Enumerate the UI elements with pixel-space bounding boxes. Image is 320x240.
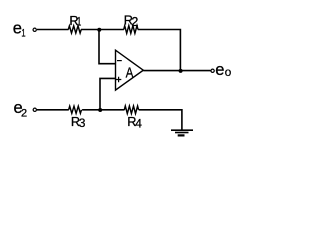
svg-text:1: 1 [77,15,82,29]
svg-text:e: e [215,61,224,79]
svg-text:3: 3 [79,116,86,130]
svg-text:2: 2 [21,108,27,120]
svg-text:A: A [126,66,134,82]
svg-text:2: 2 [131,15,138,29]
svg-text:1: 1 [21,28,25,40]
svg-text:o: o [225,66,232,79]
svg-text:4: 4 [135,117,142,131]
